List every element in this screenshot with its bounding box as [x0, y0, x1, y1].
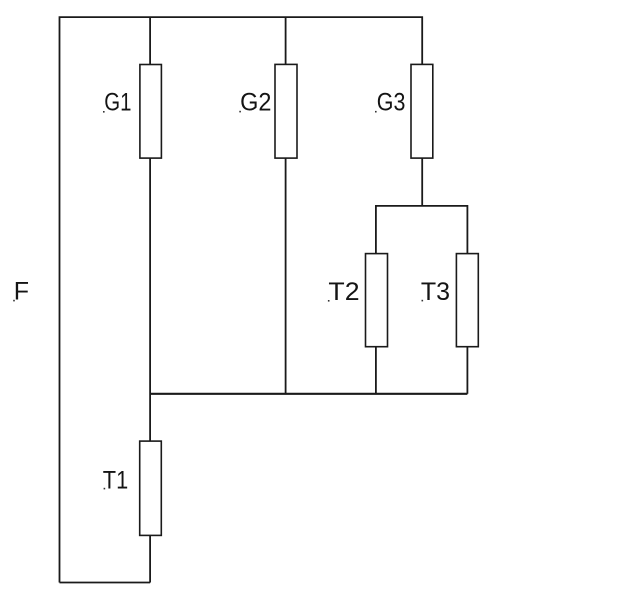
svg-text:G3: G3: [377, 88, 406, 116]
svg-text:T2: T2: [328, 279, 359, 306]
svg-text:G2: G2: [240, 89, 271, 117]
svg-text:T3: T3: [421, 278, 450, 306]
svg-text:F: F: [14, 277, 29, 305]
svg-text:T1: T1: [103, 466, 128, 494]
svg-text:G1: G1: [104, 88, 131, 116]
